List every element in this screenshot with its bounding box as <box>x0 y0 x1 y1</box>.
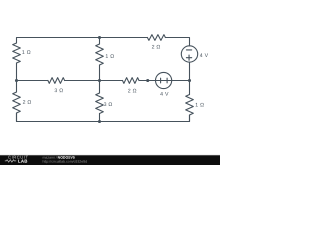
node top middle junction <box>98 36 101 39</box>
wire middle rail bottom stub <box>99 114 101 122</box>
resistor R8 1ohm right <box>186 95 194 116</box>
wire top net left segment <box>17 38 148 44</box>
resistor R5 3ohm middle vertical <box>96 93 104 114</box>
node center junction <box>98 79 101 82</box>
resistor R2 2ohm left <box>13 92 21 113</box>
svg-text:3 Ω: 3 Ω <box>104 102 113 108</box>
wire middle net center segment <box>65 80 123 82</box>
svg-text:2 Ω: 2 Ω <box>152 45 161 51</box>
wire right rail upper <box>189 62 191 94</box>
node bottom middle junction <box>98 120 101 123</box>
wire middle rail top stub <box>99 38 101 45</box>
wire bottom net <box>17 113 190 122</box>
wire left rail middle <box>16 63 18 92</box>
svg-text:LAB: LAB <box>18 159 28 164</box>
wire middle rail center <box>99 65 101 93</box>
wire top net right segment <box>165 38 189 46</box>
wire left rail bottom <box>16 113 18 122</box>
voltage source V1 4V right <box>181 46 197 62</box>
resistor R4 1ohm middle <box>96 44 104 65</box>
wire middle net through source V2 <box>139 80 190 82</box>
voltage source V2 4V horizontal <box>156 72 172 88</box>
wire middle net left segment <box>17 80 48 82</box>
V2 minus terminal tick <box>166 78 168 83</box>
svg-text:2 Ω: 2 Ω <box>128 88 137 94</box>
node before source V2 <box>146 79 149 82</box>
svg-text:http://circuitlab.com/c932e9d: http://circuitlab.com/c932e9d <box>42 160 87 164</box>
svg-text:4 V: 4 V <box>160 92 169 98</box>
node left middle junction <box>15 79 18 82</box>
svg-text:4 V: 4 V <box>200 53 209 59</box>
node right middle junction <box>188 79 191 82</box>
resistor R6 3ohm horizontal <box>48 78 65 84</box>
resistor R7 2ohm horizontal <box>123 78 140 84</box>
V2 plus terminal tick <box>160 78 162 83</box>
svg-text:2 Ω: 2 Ω <box>23 100 32 106</box>
V1 minus sign <box>186 49 191 51</box>
resistor R3 2ohm top <box>147 35 165 41</box>
wire right rail bottom stub <box>189 115 191 122</box>
svg-text:1 Ω: 1 Ω <box>195 103 204 109</box>
resistor R1 1ohm left <box>13 43 21 63</box>
CircuitLab logo resistor squiggle <box>5 160 16 162</box>
svg-text:1 Ω: 1 Ω <box>105 54 114 60</box>
svg-text:3 Ω: 3 Ω <box>54 88 63 94</box>
svg-text:1 Ω: 1 Ω <box>22 50 31 56</box>
footer banner background <box>0 155 220 165</box>
V1 plus sign <box>186 55 191 60</box>
